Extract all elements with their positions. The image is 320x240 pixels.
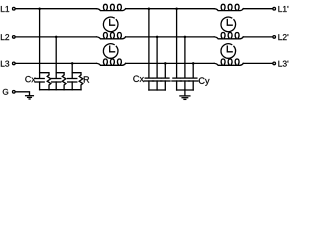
junction dot L3 tap xyxy=(71,62,74,65)
label L2 xyxy=(1,34,9,40)
junction dot L1 tap xyxy=(38,7,41,10)
capacitor Cx3 xyxy=(68,79,77,90)
terminal G xyxy=(13,91,16,94)
terminal L1 xyxy=(13,7,16,10)
capacitor Cx5 xyxy=(152,78,161,90)
choke U1 core symbol (circled L upper) xyxy=(103,17,118,32)
wire drop from L1 to middle Cx group xyxy=(148,9,150,78)
capacitor Cx2 xyxy=(52,79,61,90)
wire G xyxy=(16,92,30,96)
wire drop from L2 to Cy group xyxy=(184,37,186,78)
ground stub of Cy group xyxy=(184,90,186,96)
label Cy xyxy=(199,77,210,85)
junction dot L3 tap 3 xyxy=(192,62,195,65)
wire jog to R3 xyxy=(72,73,81,75)
label L2' xyxy=(278,34,288,40)
label G xyxy=(3,89,8,95)
resistor R2 (zigzag) xyxy=(62,75,66,90)
wire L2 between chokes xyxy=(126,36,215,38)
wire drop from L3 to middle Cx group xyxy=(164,63,166,77)
resistor R1 (zigzag) xyxy=(47,75,51,90)
node bus of Cy group xyxy=(177,89,194,91)
capacitor Cy3 xyxy=(189,78,198,90)
capacitor Cx6 xyxy=(161,78,170,90)
choke U2 winding on L1 xyxy=(214,4,243,10)
choke U1 winding on L3 xyxy=(97,59,126,65)
wire L2 input to choke U1 xyxy=(16,36,97,38)
node bus of Cx/R bank xyxy=(40,89,81,91)
wire drop from L1 to Cx bank xyxy=(39,9,41,78)
junction dot L2 tap 2 xyxy=(156,36,159,39)
ground earth symbol at G xyxy=(26,96,34,99)
wire L1 input to choke U1 xyxy=(16,8,97,10)
wire jog to R2 xyxy=(56,73,64,75)
ground earth symbol of Cy group xyxy=(180,96,190,100)
wire L3 input to choke U1 xyxy=(16,62,97,64)
wire L3 choke U2 to output xyxy=(243,62,272,64)
capacitor Cy2 xyxy=(180,78,189,90)
wire L3 between chokes xyxy=(126,62,215,64)
junction dot L3 tap 2 xyxy=(164,62,167,65)
label R xyxy=(84,76,89,82)
label Cx (middle) xyxy=(133,75,144,82)
junction dot L1 tap 2 xyxy=(148,7,151,10)
choke U1 winding on L2 xyxy=(97,33,126,39)
choke U2 winding on L3 xyxy=(214,59,243,65)
choke U2 core symbol (circled L lower) xyxy=(221,44,236,59)
wire drop from L1 to Cy group xyxy=(176,9,178,78)
choke U2 winding on L2 xyxy=(214,33,243,39)
resistor R3 (zigzag) xyxy=(79,75,83,90)
capacitor Cx1 xyxy=(35,79,44,90)
capacitor Cx4 xyxy=(144,78,153,90)
junction dot L2 tap 3 xyxy=(184,36,187,39)
terminal L2' xyxy=(273,36,276,39)
wire drop from L2 to middle Cx group xyxy=(156,37,158,78)
choke U2 core symbol (circled L upper) xyxy=(221,17,236,32)
terminal L3 xyxy=(13,62,16,65)
wire L1 between chokes xyxy=(126,8,215,10)
label L3 xyxy=(1,61,9,67)
label L3' xyxy=(278,61,288,67)
wire drop from L3 to Cx bank xyxy=(71,63,73,78)
wire L2 choke U2 to output xyxy=(243,36,272,38)
label L1 xyxy=(1,6,9,12)
wire drop from L3 to Cy group xyxy=(192,63,194,77)
node bus of middle Cx group xyxy=(149,89,165,91)
label L1' xyxy=(278,6,288,12)
terminal L1' xyxy=(273,7,276,10)
capacitor Cy1 xyxy=(172,78,181,90)
choke U1 core symbol (circled L lower) xyxy=(103,44,118,59)
wire jog to R1 xyxy=(40,73,49,75)
label Cx (left bank) xyxy=(25,76,35,82)
wire L1 choke U2 to output xyxy=(243,8,272,10)
wire drop from L2 to Cx bank xyxy=(55,37,57,78)
junction dot L2 tap xyxy=(55,36,58,39)
terminal L2 xyxy=(13,36,16,39)
terminal L3' xyxy=(273,62,276,65)
choke U1 winding on L1 xyxy=(97,4,126,10)
junction dot L1 tap 3 xyxy=(175,7,178,10)
